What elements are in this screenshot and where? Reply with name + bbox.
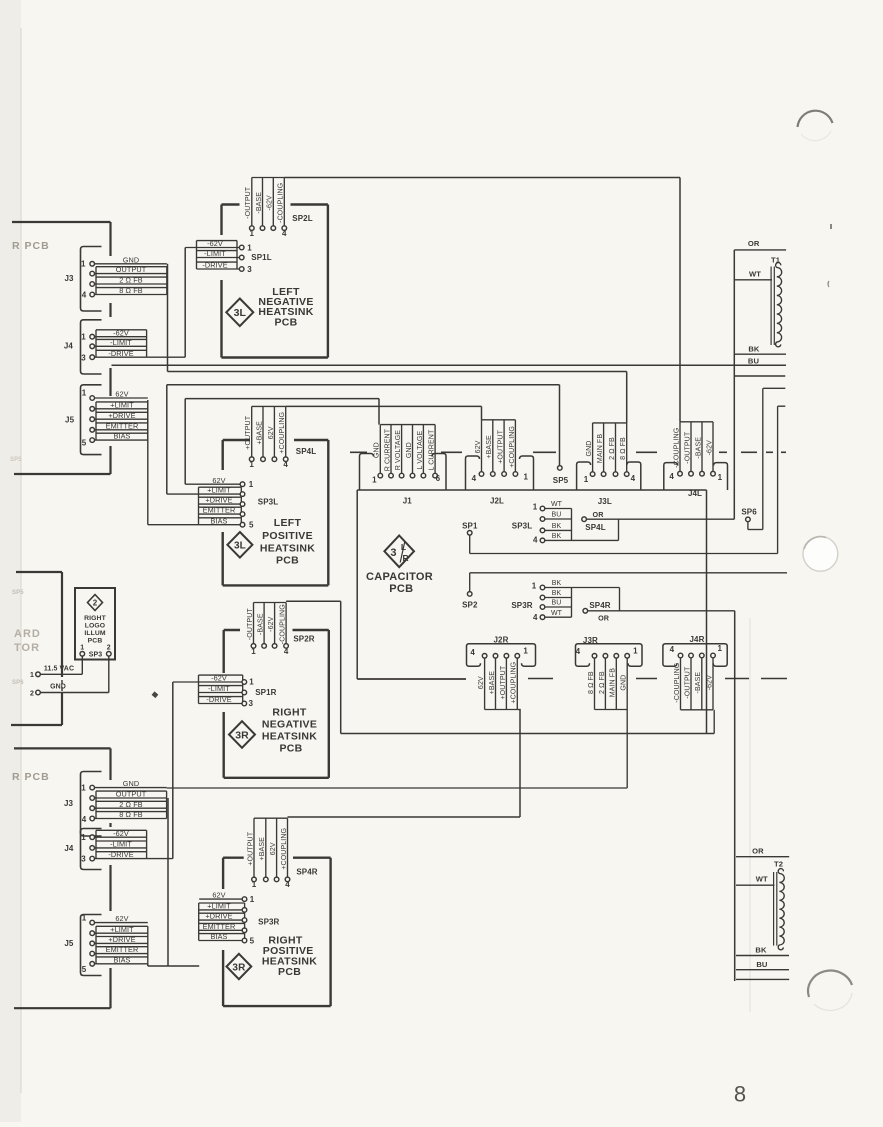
- svg-text:-OUTPUT: -OUTPUT: [245, 186, 252, 219]
- svg-text:4: 4: [576, 647, 581, 656]
- wire SP2R bus extension down to capacitor bottom: [286, 600, 341, 602]
- svg-text:R PCB: R PCB: [12, 771, 50, 783]
- svg-text:L CURRENT: L CURRENT: [429, 429, 436, 471]
- svg-text:R PCB: R PCB: [12, 240, 50, 252]
- pin SP3L +DRIVE: [240, 502, 245, 507]
- svg-text:5: 5: [82, 965, 87, 974]
- pin J4L -62V: [711, 471, 716, 476]
- pin J5b BIAS: [90, 962, 95, 967]
- svg-text:-LIMIT: -LIMIT: [204, 249, 226, 258]
- wire SP3L row +DRIVE: [199, 503, 241, 505]
- svg-text:1: 1: [718, 644, 723, 653]
- svg-text:8 Ω FB: 8 Ω FB: [119, 286, 143, 295]
- wire SP3R WT: [545, 616, 572, 618]
- svg-text:GND: GND: [123, 255, 140, 264]
- svg-text:SP2R: SP2R: [293, 634, 314, 643]
- connector J2L bus: [482, 419, 516, 421]
- label box J5 +LIMIT: [96, 401, 148, 403]
- wire riser SP1L to J4 -DRIVE: [184, 248, 186, 358]
- wire J5 lower BIAS to SP3R: [148, 965, 199, 967]
- pin SP1L -LIMIT: [239, 255, 244, 260]
- connector J2R bracket: [467, 644, 536, 667]
- svg-text:2 Ω FB: 2 Ω FB: [119, 276, 143, 285]
- svg-text:-62V: -62V: [207, 239, 223, 248]
- symbol diamond 2 (logo illum): [88, 595, 103, 611]
- wire SP3L BK to OR splice: [572, 539, 619, 541]
- wire J4L pin -OUTPUT: [690, 422, 692, 472]
- wire SP3R BK: [545, 597, 572, 599]
- wire SP2R pin -62V: [274, 603, 276, 644]
- wire SP4L pin +COUPLING: [285, 406, 287, 457]
- wire capacitor bottom to J4R bus: [713, 710, 715, 734]
- wire SP4L pin 62V: [273, 406, 275, 457]
- wire J2L pin 62V: [481, 420, 483, 472]
- pin J1 GND: [378, 473, 383, 478]
- pin J3L 8 Ω FB: [624, 472, 629, 477]
- svg-text:-62V: -62V: [267, 195, 274, 210]
- svg-text:SP2: SP2: [462, 600, 478, 609]
- svg-text:SP3R: SP3R: [511, 601, 532, 610]
- label box SP3R +LIMIT: [199, 902, 245, 904]
- svg-text:-62V: -62V: [113, 328, 129, 337]
- pin J4R -OUTPUT: [689, 653, 694, 658]
- pin SP3R BIAS: [242, 938, 247, 943]
- svg-text:-COUPLING: -COUPLING: [673, 428, 680, 468]
- wire SP2R pin -BASE: [263, 603, 265, 644]
- svg-text:POSITIVE: POSITIVE: [262, 530, 313, 542]
- svg-text:PCB: PCB: [88, 638, 103, 645]
- pin J3R GND: [625, 654, 630, 659]
- svg-text:+LIMIT: +LIMIT: [207, 486, 231, 495]
- wire SP4L pin +BASE: [262, 406, 264, 457]
- svg-text:J3: J3: [64, 274, 74, 283]
- svg-text:1: 1: [372, 475, 377, 484]
- pin J1 R CURRENT: [389, 473, 394, 478]
- pin SP4R +COUPLING: [285, 877, 290, 882]
- pin SP1L -DRIVE: [239, 267, 244, 272]
- wire SP1R row -DRIVE: [199, 703, 243, 705]
- connector J4R bus: [681, 709, 714, 711]
- pin SP3L +LIMIT: [240, 492, 245, 497]
- label box J3 2 Ω FB: [96, 276, 167, 278]
- svg-text:+OUTPUT: +OUTPUT: [245, 415, 252, 449]
- wire J3R GND long: [626, 658, 628, 788]
- pin J3R 2 Ω FB: [603, 654, 608, 659]
- box capacitor PCB top edge: [357, 489, 706, 491]
- label box J4 -62V: [96, 329, 147, 331]
- pin J3b 8 Ω FB: [90, 816, 95, 821]
- wire J2R pin +COUPLING: [516, 658, 518, 709]
- wire J1 pin L VOLTAGE: [422, 425, 424, 474]
- connector J2L bracket: [466, 456, 480, 490]
- svg-text:-LIMIT: -LIMIT: [110, 338, 132, 347]
- svg-text:J5: J5: [64, 939, 74, 948]
- pin SP3 2: [107, 652, 112, 657]
- svg-text:2 Ω FB: 2 Ω FB: [119, 800, 143, 809]
- connector J4R bracket: [663, 644, 727, 667]
- wire J4 -DRIVE extension: [147, 356, 186, 358]
- wire T1 BK: [734, 353, 786, 355]
- label box J4b -LIMIT: [96, 840, 147, 842]
- wire SP3L row BIAS: [148, 524, 240, 526]
- svg-text:CAPACITOR: CAPACITOR: [366, 571, 433, 583]
- wire J5 row +LIMIT: [95, 408, 148, 410]
- wire SP3L BK: [545, 539, 572, 541]
- label box J5b +LIMIT: [96, 925, 148, 927]
- svg-text:BU: BU: [748, 356, 760, 365]
- svg-text:1: 1: [252, 880, 257, 889]
- svg-text:4: 4: [669, 472, 674, 481]
- svg-text:-OUTPUT: -OUTPUT: [684, 431, 691, 464]
- label box J5b +DRIVE: [96, 936, 148, 938]
- svg-text:+COUPLING: +COUPLING: [511, 662, 518, 704]
- svg-text:1: 1: [250, 895, 255, 904]
- connector SP2L bus: [252, 177, 284, 179]
- pin J1 R VOLTAGE: [399, 473, 404, 478]
- pin J2R +BASE: [493, 654, 498, 659]
- connector J3 lower bracket: [81, 772, 102, 837]
- svg-text:+DRIVE: +DRIVE: [108, 411, 135, 420]
- wire J3 row GND: [95, 263, 167, 265]
- pin J4 -LIMIT: [90, 344, 95, 349]
- wire SP3R row BIAS: [199, 940, 243, 942]
- label box J3b OUTPUT: [96, 790, 167, 792]
- svg-text:4: 4: [533, 613, 538, 622]
- wire J5b row EMITTER: [95, 953, 148, 955]
- wire SP3L WT: [545, 508, 572, 510]
- pin J2L 62V: [479, 472, 484, 477]
- pin J2L +BASE: [491, 472, 496, 477]
- box right logo illum PCB: [75, 588, 115, 660]
- wire J1 pin R CURRENT: [390, 425, 392, 474]
- wire J4R pin -62V: [712, 658, 714, 710]
- svg-text:8 Ω FB: 8 Ω FB: [588, 671, 595, 694]
- pin J3b 2 Ω FB: [90, 806, 95, 811]
- label box J4b -DRIVE: [96, 851, 147, 853]
- wire T1 OR: [734, 249, 786, 251]
- transformer T2 core: [773, 872, 775, 946]
- svg-text:TOR: TOR: [14, 642, 40, 654]
- svg-text:2: 2: [30, 691, 34, 698]
- pin J2R 62V: [482, 654, 487, 659]
- pin J3R 8 Ω FB: [592, 654, 597, 659]
- svg-text:ILLUM: ILLUM: [84, 630, 106, 637]
- wire J3L pin GND: [592, 423, 594, 472]
- wire SP3L bus: [571, 509, 573, 541]
- svg-text:BK: BK: [755, 945, 767, 954]
- wire J4R pin -BASE: [701, 658, 703, 710]
- wire SP3R row 62V: [199, 898, 242, 900]
- wire SP3R BK: [545, 587, 572, 589]
- scan fold line: [749, 618, 751, 1012]
- svg-text:SP4R: SP4R: [296, 867, 317, 876]
- symbol 3R diamond (right positive): [227, 954, 252, 979]
- svg-text:OR: OR: [593, 510, 605, 519]
- connector SP2R bus: [254, 602, 287, 604]
- wire T2 OR: [736, 856, 789, 858]
- svg-text:-OUTPUT: -OUTPUT: [684, 666, 691, 699]
- svg-text:4: 4: [470, 648, 475, 657]
- pin J3b GND: [90, 785, 95, 790]
- label box J4b -62V: [96, 829, 147, 831]
- pin J1 L CURRENT: [433, 473, 438, 478]
- svg-text:1: 1: [82, 389, 87, 398]
- label box SP1L -DRIVE: [197, 261, 238, 263]
- punch hole middle right: [803, 536, 838, 571]
- wire OR splice to T1: [586, 518, 734, 520]
- svg-text:2: 2: [107, 645, 111, 652]
- svg-text:+DRIVE: +DRIVE: [108, 935, 135, 944]
- pin J4R -62V: [711, 653, 716, 658]
- dashed boundary bottom: [528, 678, 553, 680]
- dashed boundary top: [350, 451, 367, 453]
- label box J3 OUTPUT: [96, 266, 167, 268]
- svg-text:4: 4: [285, 880, 290, 889]
- wire J2R pin 62V: [484, 658, 486, 709]
- svg-text:LEFT: LEFT: [274, 517, 302, 529]
- svg-text:-OUTPUT: -OUTPUT: [247, 608, 254, 641]
- pin J5 EMITTER: [90, 428, 95, 433]
- wire SP2L pin -62V: [272, 178, 274, 226]
- svg-text:2 Ω FB: 2 Ω FB: [599, 671, 606, 694]
- label box J4 -DRIVE: [96, 349, 147, 351]
- svg-text:T2: T2: [774, 860, 783, 869]
- svg-text:-COUPLING: -COUPLING: [278, 183, 285, 223]
- svg-text:-DRIVE: -DRIVE: [108, 850, 133, 859]
- wire T2 BK: [736, 955, 789, 957]
- svg-text:4: 4: [472, 474, 477, 483]
- wire J4L pin -COUPLING: [679, 422, 681, 472]
- wire SP1 to T1 tap: [469, 535, 471, 553]
- pin J2L +COUPLING: [513, 472, 518, 477]
- svg-text:HEATSINK: HEATSINK: [262, 730, 317, 742]
- svg-text:J2R: J2R: [494, 635, 509, 644]
- svg-text:BK: BK: [552, 590, 562, 597]
- pin SP2R -62V: [272, 644, 277, 649]
- punch hole bottom right: [808, 971, 852, 997]
- wire GND long line lower: [167, 787, 628, 789]
- wire SP1L row -DRIVE: [197, 268, 240, 270]
- pin SP4L +COUPLING: [283, 457, 288, 462]
- wire J2R pin +BASE: [495, 658, 497, 709]
- box right positive heatsink PCB: [223, 857, 244, 859]
- svg-text:OR: OR: [598, 614, 610, 623]
- pin J5b EMITTER: [90, 951, 95, 956]
- svg-text:SP1R: SP1R: [255, 688, 276, 697]
- svg-text:SP3L: SP3L: [512, 522, 532, 531]
- label box J3b 8 Ω FB: [96, 811, 167, 813]
- svg-text:5: 5: [250, 937, 255, 946]
- label box J5 BIAS: [96, 432, 148, 434]
- svg-text:SP3L: SP3L: [258, 497, 278, 506]
- wire J4R pin -COUPLING: [680, 658, 682, 710]
- connector J4 lower bracket: [81, 829, 102, 870]
- wire SP3L row EMITTER: [199, 513, 241, 515]
- svg-text:WT: WT: [749, 269, 761, 278]
- connector J3 upper bracket: [81, 247, 102, 312]
- svg-text:EMITTER: EMITTER: [203, 922, 236, 931]
- svg-text:4: 4: [631, 474, 636, 483]
- wire GND to SP3: [41, 692, 109, 694]
- wire SP1R row -62V: [173, 681, 242, 683]
- pin SP2L -COUPLING: [282, 226, 287, 231]
- svg-text:J4L: J4L: [688, 489, 702, 498]
- pin SP1R -DRIVE: [242, 701, 247, 706]
- wire J4 row -LIMIT: [95, 345, 147, 347]
- box capacitor PCB bottom-left wire: [357, 678, 466, 680]
- pin J4 -DRIVE: [90, 355, 95, 360]
- svg-text:BIAS: BIAS: [210, 932, 227, 941]
- svg-text:J5: J5: [65, 416, 75, 425]
- pin SP5: [558, 466, 563, 471]
- svg-text:+BASE: +BASE: [256, 421, 263, 445]
- wire SP3R BK to SP4R splice: [572, 587, 620, 589]
- svg-text:EMITTER: EMITTER: [106, 421, 139, 430]
- svg-text:GND: GND: [374, 442, 381, 458]
- wire trunk D SP4L bus to J2L 62V: [286, 405, 482, 407]
- wire SP1L row -62V: [185, 247, 239, 249]
- connector J1 bus: [380, 424, 435, 426]
- wire SP2L pin -OUTPUT: [251, 178, 253, 226]
- transformer T1 winding: [776, 263, 782, 347]
- wire L1 output bus to T1 BU: [112, 364, 787, 366]
- svg-text:SP4L: SP4L: [296, 447, 316, 456]
- svg-text:WT: WT: [551, 501, 563, 508]
- svg-text:-BASE: -BASE: [256, 192, 263, 214]
- svg-text:3: 3: [81, 855, 86, 864]
- svg-text:+BASE: +BASE: [486, 435, 493, 459]
- pin J5 +LIMIT: [90, 407, 95, 412]
- svg-text:J2L: J2L: [490, 497, 504, 506]
- label box SP1L -62V: [197, 240, 238, 242]
- svg-text:-BASE: -BASE: [695, 672, 702, 694]
- pin SP4R +BASE: [264, 877, 269, 882]
- svg-text:PCB: PCB: [279, 743, 302, 755]
- svg-text:J4: J4: [64, 342, 74, 351]
- pin SP3L BK: [540, 538, 545, 543]
- svg-text:EMITTER: EMITTER: [203, 506, 236, 515]
- svg-text:LOGO: LOGO: [85, 623, 105, 630]
- svg-text:-DRIVE: -DRIVE: [206, 695, 231, 704]
- svg-text:J4: J4: [64, 844, 74, 853]
- svg-text:+COUPLING: +COUPLING: [279, 412, 286, 454]
- pin J3 2 Ω FB: [90, 282, 95, 287]
- wire SP4R OR splice to T2: [588, 610, 735, 612]
- svg-text:-LIMIT: -LIMIT: [208, 684, 230, 693]
- box capacitor PCB left edge: [356, 490, 358, 679]
- svg-text:-62V: -62V: [211, 674, 227, 683]
- wire SP4R pin +OUTPUT: [253, 818, 255, 877]
- svg-text:SP6: SP6: [12, 680, 24, 686]
- svg-text:+LIMIT: +LIMIT: [110, 925, 134, 934]
- svg-text:BIAS: BIAS: [113, 955, 130, 964]
- svg-text:BK: BK: [748, 345, 760, 354]
- svg-text:8: 8: [734, 1082, 746, 1107]
- wire J4R pin -OUTPUT: [690, 658, 692, 710]
- svg-text:3: 3: [81, 354, 86, 363]
- wire T2 bottom: [736, 978, 789, 980]
- wire J3b row 8 Ω FB: [95, 818, 167, 820]
- pin J2L +OUTPUT: [502, 472, 507, 477]
- connector SP4L bus: [252, 405, 286, 407]
- wire SP4R pin 62V: [276, 818, 278, 877]
- wire J5 row 62V: [95, 397, 148, 399]
- wire J3 row 2 Ω FB: [95, 283, 167, 285]
- label box SP3R +DRIVE: [199, 912, 245, 914]
- svg-text:1: 1: [81, 784, 86, 793]
- svg-text:SP1: SP1: [462, 521, 478, 530]
- svg-text:1: 1: [81, 833, 86, 842]
- svg-text:+LIMIT: +LIMIT: [110, 400, 134, 409]
- connector J4L bus: [680, 421, 713, 423]
- wire J1 pin R VOLTAGE: [401, 425, 403, 474]
- svg-text:+DRIVE: +DRIVE: [205, 496, 232, 505]
- svg-text:1: 1: [80, 645, 84, 652]
- wire T1 WT: [734, 279, 772, 281]
- svg-text:4: 4: [82, 291, 87, 300]
- svg-text:J3L: J3L: [598, 497, 612, 506]
- pin J3b OUTPUT: [90, 796, 95, 801]
- svg-text:+OUTPUT: +OUTPUT: [498, 429, 505, 463]
- svg-text:BU: BU: [756, 960, 768, 969]
- wire T2 BU: [736, 969, 789, 971]
- svg-text:-COUPLING: -COUPLING: [280, 604, 287, 644]
- svg-text:-62V: -62V: [268, 616, 275, 631]
- label box J3b 2 Ω FB: [96, 800, 167, 802]
- svg-text:1: 1: [251, 647, 256, 656]
- svg-text:+OUTPUT: +OUTPUT: [247, 831, 254, 865]
- svg-text:+DRIVE: +DRIVE: [205, 912, 232, 921]
- pin SP4L +OUTPUT: [249, 457, 254, 462]
- wire J4b row -DRIVE: [95, 858, 147, 860]
- svg-text:+LIMIT: +LIMIT: [207, 902, 231, 911]
- pin J4 -62V: [90, 334, 95, 339]
- svg-text:J1: J1: [403, 497, 413, 506]
- pin J3 GND: [90, 262, 95, 267]
- wire SP3L row +LIMIT: [167, 493, 240, 495]
- pin SP2L -62V: [271, 226, 276, 231]
- pin SP4R 62V: [274, 877, 279, 882]
- svg-text:1: 1: [584, 475, 589, 484]
- label box SP3L +DRIVE: [199, 496, 242, 498]
- wire J5b row +LIMIT: [95, 932, 148, 934]
- wire J3L pin 8 Ω FB: [626, 423, 628, 472]
- svg-text:-DRIVE: -DRIVE: [202, 261, 227, 270]
- svg-text:OR: OR: [752, 846, 764, 855]
- svg-text:3: 3: [390, 547, 396, 559]
- pin SP3L EMITTER: [240, 512, 245, 517]
- wire J5b row BIAS: [95, 963, 148, 965]
- connector J3R bus: [595, 709, 628, 711]
- wire SP6 jog to T1 tap: [747, 522, 749, 530]
- svg-text:+COUPLING: +COUPLING: [509, 426, 516, 468]
- wire SP2L bus to J4L: [284, 177, 680, 179]
- svg-text:SP5: SP5: [553, 476, 569, 485]
- svg-text:1: 1: [524, 473, 529, 482]
- wire J2L pin +BASE: [492, 420, 494, 472]
- box capacitor PCB bottom line: [341, 733, 715, 735]
- wire J3b row 2 Ω FB: [95, 807, 167, 809]
- svg-text:4: 4: [533, 535, 538, 544]
- svg-text:MAIN FB: MAIN FB: [610, 668, 617, 697]
- connector J5 upper bracket: [81, 385, 102, 455]
- symbol 3L diamond (left negative): [226, 299, 253, 327]
- wire SP2R pin -OUTPUT: [253, 603, 255, 644]
- svg-text:SP1L: SP1L: [251, 253, 271, 262]
- pin J4b -62V: [90, 835, 95, 840]
- label box J5b EMITTER: [96, 946, 148, 948]
- wire J3b row OUTPUT: [95, 797, 167, 799]
